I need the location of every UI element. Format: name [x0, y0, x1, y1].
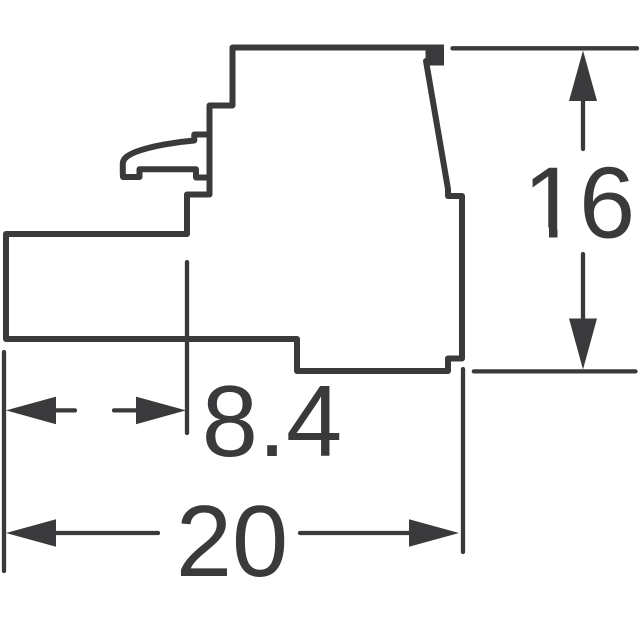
latch lever — [123, 135, 210, 178]
dim 20 left shaft — [56, 531, 158, 535]
part outline — [6, 48, 462, 372]
dim 16 upper shaft — [581, 101, 585, 149]
extension line top right (16) — [453, 46, 638, 50]
arrowhead 20 left — [6, 519, 56, 547]
arrowhead 8.4 left — [6, 397, 56, 425]
dim 8.4 right stub — [114, 408, 136, 412]
dim 8.4 left stub — [56, 408, 75, 412]
dim 20 right shaft — [300, 531, 409, 535]
top-right corner block fill — [426, 45, 445, 66]
extension line middle (8.4) — [185, 262, 189, 433]
arrowhead 20 right — [409, 519, 459, 547]
arrowhead 16 up — [569, 51, 597, 102]
dim 16 lower shaft — [581, 254, 585, 319]
extension line right (20) — [461, 369, 465, 552]
arrowhead 8.4 right — [136, 397, 186, 425]
svg-text:8.4: 8.4 — [202, 366, 342, 478]
white patches removing Liberation Sans "1" foot serif — [524, 228, 549, 239]
arrowhead 16 down — [569, 319, 597, 370]
svg-text:20: 20 — [176, 486, 288, 598]
svg-text:16: 16 — [523, 147, 635, 259]
extension line left (8.4 / 20) — [2, 352, 6, 571]
extension line bottom right (16) — [474, 369, 636, 373]
